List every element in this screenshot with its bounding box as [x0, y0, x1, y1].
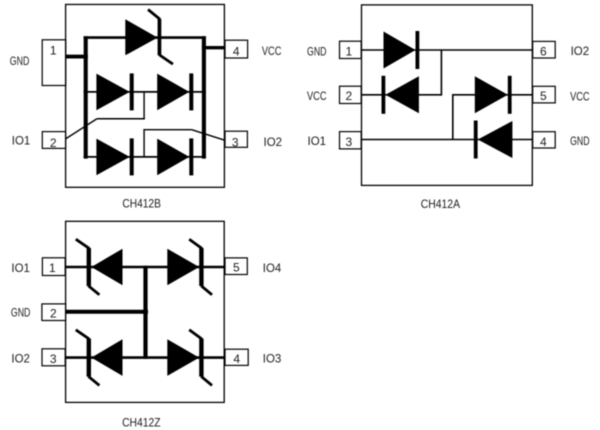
- wire center vertical rail: [143, 266, 147, 359]
- wire row3 pin3 to pin4: [361, 139, 533, 141]
- svg-text:4: 4: [233, 352, 240, 366]
- svg-text:CH412B: CH412B: [122, 197, 160, 211]
- pin 2 box (IO1): [42, 132, 65, 149]
- TVS zener bottom-left CH412Z: [76, 330, 123, 386]
- TVS zener top-right CH412Z: [167, 239, 212, 295]
- svg-text:IO2: IO2: [11, 351, 30, 365]
- pin 4 box (GND): [533, 132, 556, 148]
- diode row2-left CH412A: [382, 76, 419, 114]
- svg-text:GND: GND: [11, 306, 31, 320]
- svg-text:3: 3: [232, 135, 239, 149]
- svg-text:VCC: VCC: [262, 44, 282, 58]
- wire left GND rail: [84, 36, 88, 158]
- svg-text:VCC: VCC: [307, 89, 327, 103]
- pin 4 box (VCC): [225, 40, 248, 58]
- package CH412B outline: [66, 4, 225, 187]
- svg-text:2: 2: [50, 307, 57, 321]
- wire row1 pin1 to pin5: [66, 266, 225, 268]
- svg-text:IO1: IO1: [12, 133, 31, 147]
- wire pin4 stub: [202, 46, 225, 49]
- pin 2 box (GND): [42, 304, 66, 321]
- wire IO1 tap junction to pin 2: [66, 92, 145, 139]
- wire vertical node left group: [440, 50, 442, 96]
- diode row3 CH412A: [474, 121, 513, 159]
- diode row2-right CH412A: [475, 76, 512, 114]
- wire row2 node to pin5: [453, 94, 533, 96]
- wire vertical node right group: [452, 94, 454, 140]
- diode bottom-right CH412B: [157, 138, 193, 175]
- wire bottom diode row: [84, 156, 206, 158]
- wire zener row: [84, 36, 206, 39]
- svg-text:6: 6: [540, 45, 547, 59]
- pin 3 box (IO2): [225, 131, 247, 147]
- wire row1 pin1 to pin6: [361, 49, 533, 51]
- wire middle diode row: [84, 91, 206, 93]
- wire row3 pin3 to pin4: [66, 356, 225, 359]
- svg-text:IO3: IO3: [263, 351, 282, 365]
- pin 2 box (VCC): [340, 86, 362, 103]
- pin 4 box (IO3): [225, 349, 248, 365]
- diode middle-left CH412B: [96, 73, 133, 110]
- pin 1 box (GND): [340, 41, 362, 58]
- wire pin1 stub: [66, 55, 88, 59]
- svg-text:5: 5: [233, 261, 240, 275]
- TVS zener diode top CH412B: [125, 10, 173, 65]
- svg-text:1: 1: [49, 261, 56, 275]
- svg-text:3: 3: [50, 352, 57, 366]
- svg-text:4: 4: [233, 44, 240, 58]
- svg-text:1: 1: [345, 45, 352, 59]
- pin 5 box (IO4): [225, 258, 247, 275]
- svg-text:IO1: IO1: [308, 134, 327, 148]
- pin 3 box (IO1): [340, 132, 362, 149]
- svg-text:IO4: IO4: [263, 261, 282, 275]
- diode row1 CH412A: [384, 31, 420, 69]
- svg-text:VCC: VCC: [570, 89, 590, 103]
- pin 1 box (IO1): [42, 258, 65, 276]
- TVS zener bottom-right CH412Z: [167, 330, 212, 386]
- pin 5 box (VCC): [533, 86, 556, 103]
- svg-text:2: 2: [345, 89, 352, 103]
- svg-text:IO2: IO2: [571, 44, 590, 58]
- svg-text:GND: GND: [307, 45, 327, 59]
- TVS zener top-left CH412Z: [76, 239, 123, 295]
- svg-text:2: 2: [50, 136, 57, 150]
- package CH412Z outline: [66, 221, 225, 402]
- svg-text:IO1: IO1: [11, 261, 30, 275]
- pin 6 box (IO2): [533, 41, 556, 58]
- svg-text:GND: GND: [10, 54, 30, 68]
- wire row2 pin2 to node: [361, 94, 441, 96]
- diode bottom-left CH412B: [96, 138, 133, 175]
- wire GND stub pin2: [66, 310, 148, 314]
- svg-text:3: 3: [345, 135, 352, 149]
- package CH412A outline: [362, 5, 533, 186]
- diode middle-right CH412B: [157, 73, 193, 110]
- svg-text:4: 4: [540, 135, 547, 149]
- wire IO2 tap junction to pin 3: [143, 130, 225, 157]
- svg-text:1: 1: [50, 44, 57, 58]
- svg-text:CH412A: CH412A: [421, 197, 460, 211]
- wire right VCC rail: [202, 36, 206, 158]
- svg-text:CH412Z: CH412Z: [122, 415, 161, 429]
- pin 1 box (GND): [42, 40, 65, 86]
- pin 3 box (IO2): [42, 349, 65, 366]
- svg-text:GND: GND: [570, 134, 590, 148]
- svg-text:5: 5: [540, 89, 547, 103]
- svg-text:IO2: IO2: [264, 135, 283, 149]
